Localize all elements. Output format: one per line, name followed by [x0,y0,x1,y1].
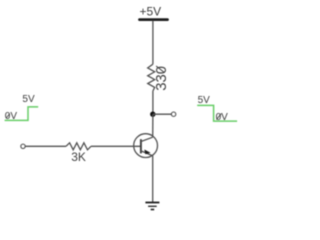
wire from resistor 3K to transistor base [91,145,141,147]
ground [145,203,159,210]
power rail bar +5V [140,18,168,21]
output waveform label 0V [216,112,229,123]
input step waveform (0V to 5V) [5,107,39,121]
svg-text:330: 330 [154,66,170,91]
resistor 330 (vertical zigzag) [148,64,155,91]
svg-text:3K: 3K [71,150,86,164]
output terminal (open circle) [171,112,175,116]
input waveform label 0V [5,111,18,122]
input terminal (open circle) [21,144,25,148]
output waveform label 5V [198,95,211,106]
resistor 3K (horizontal zigzag) [66,143,91,150]
value label 330 (rotated) [154,66,170,91]
wire from +5V bar to resistor 330 [152,21,154,65]
wire from resistor 330 to node [152,91,154,114]
node junction dot [150,112,155,117]
wire from node to transistor collector [152,114,154,137]
power label +5V [139,5,161,19]
wire from node to output terminal [153,113,171,115]
input waveform label 5V [22,94,35,105]
transistor Q1 (NPN) [134,134,158,158]
wire from input terminal to resistor 3K [25,145,66,147]
svg-text:+5V: +5V [139,5,161,19]
svg-text:5V: 5V [198,95,211,106]
value label 3K [71,150,86,164]
svg-text:5V: 5V [22,94,35,105]
wire from transistor emitter to ground [152,156,154,203]
output step waveform (5V to 0V) [197,105,237,121]
